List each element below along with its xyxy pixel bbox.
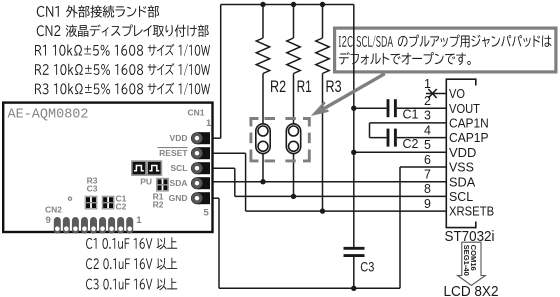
svg-text:R1: R1 bbox=[297, 78, 312, 96]
svg-text:C1: C1 bbox=[403, 108, 419, 122]
svg-text:VSS: VSS bbox=[449, 160, 474, 175]
svg-text:1: 1 bbox=[424, 77, 431, 91]
svg-text:5: 5 bbox=[204, 208, 210, 219]
svg-text:CN1: CN1 bbox=[188, 108, 205, 118]
svg-text:VDD: VDD bbox=[170, 133, 188, 143]
svg-text:1: 1 bbox=[206, 118, 212, 129]
svg-text:9: 9 bbox=[424, 197, 431, 211]
svg-text:VOUT: VOUT bbox=[449, 101, 480, 116]
svg-text:PU: PU bbox=[140, 176, 152, 186]
svg-text:C2: C2 bbox=[403, 137, 419, 151]
svg-text:CAP1N: CAP1N bbox=[449, 116, 489, 131]
svg-text:GND: GND bbox=[169, 193, 188, 203]
svg-text:4: 4 bbox=[424, 123, 431, 137]
svg-text:9: 9 bbox=[46, 215, 51, 226]
svg-text:XRSETB: XRSETB bbox=[449, 204, 494, 219]
svg-text:1: 1 bbox=[136, 215, 142, 226]
svg-text:R2: R2 bbox=[153, 199, 164, 209]
svg-text:C3: C3 bbox=[87, 183, 98, 193]
svg-text:7: 7 bbox=[424, 168, 431, 182]
svg-text:3: 3 bbox=[424, 109, 431, 123]
svg-text:SDA: SDA bbox=[449, 174, 476, 189]
svg-text:VDD: VDD bbox=[449, 145, 476, 160]
svg-text:2: 2 bbox=[424, 94, 431, 108]
svg-text:SEG1-40: SEG1-40 bbox=[462, 245, 471, 276]
svg-text:R3: R3 bbox=[326, 78, 342, 96]
svg-text:SDA: SDA bbox=[170, 178, 188, 188]
svg-text:AE-AQM0802: AE-AQM0802 bbox=[8, 108, 89, 123]
svg-text:SCL: SCL bbox=[449, 189, 473, 204]
svg-text:R2: R2 bbox=[270, 78, 286, 96]
svg-text:CAP1P: CAP1P bbox=[449, 130, 489, 145]
svg-text:CN2: CN2 bbox=[45, 204, 62, 214]
svg-text:SCL: SCL bbox=[171, 163, 188, 173]
svg-text:5: 5 bbox=[424, 138, 431, 152]
svg-text:LCD 8X2: LCD 8X2 bbox=[444, 284, 499, 297]
svg-text:6: 6 bbox=[424, 153, 431, 167]
svg-text:C3: C3 bbox=[360, 259, 374, 275]
svg-text:RESET: RESET bbox=[159, 148, 188, 158]
svg-text:VO: VO bbox=[449, 86, 465, 101]
svg-text:8: 8 bbox=[424, 182, 431, 196]
svg-text:C2: C2 bbox=[116, 201, 127, 211]
